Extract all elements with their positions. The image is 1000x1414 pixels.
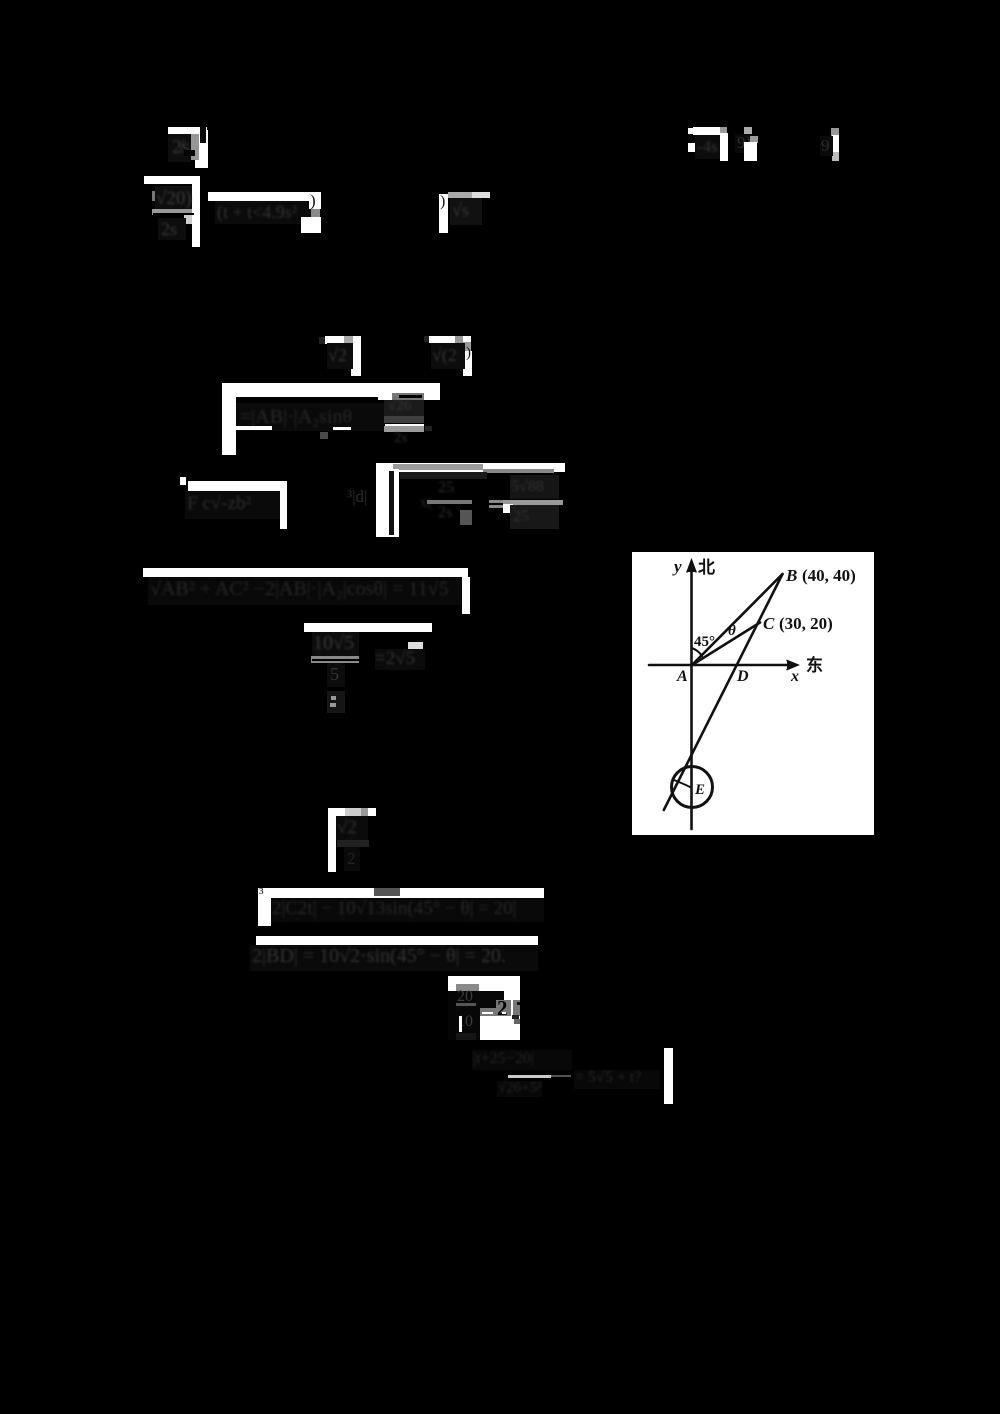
svg-text:(30, 20): (30, 20) [779, 614, 833, 633]
svg-text:北: 北 [698, 558, 715, 577]
svg-text:D: D [736, 668, 749, 685]
svg-text:45°: 45° [694, 634, 715, 650]
svg-text:E: E [694, 782, 705, 798]
svg-text:y: y [672, 557, 682, 576]
svg-text:东: 东 [806, 655, 823, 675]
svg-text:C: C [763, 614, 775, 633]
svg-text:(40, 40): (40, 40) [802, 566, 856, 585]
svg-text:A: A [676, 668, 688, 685]
svg-text:θ: θ [728, 623, 736, 639]
svg-text:B: B [785, 566, 797, 585]
svg-text:x: x [790, 668, 799, 685]
